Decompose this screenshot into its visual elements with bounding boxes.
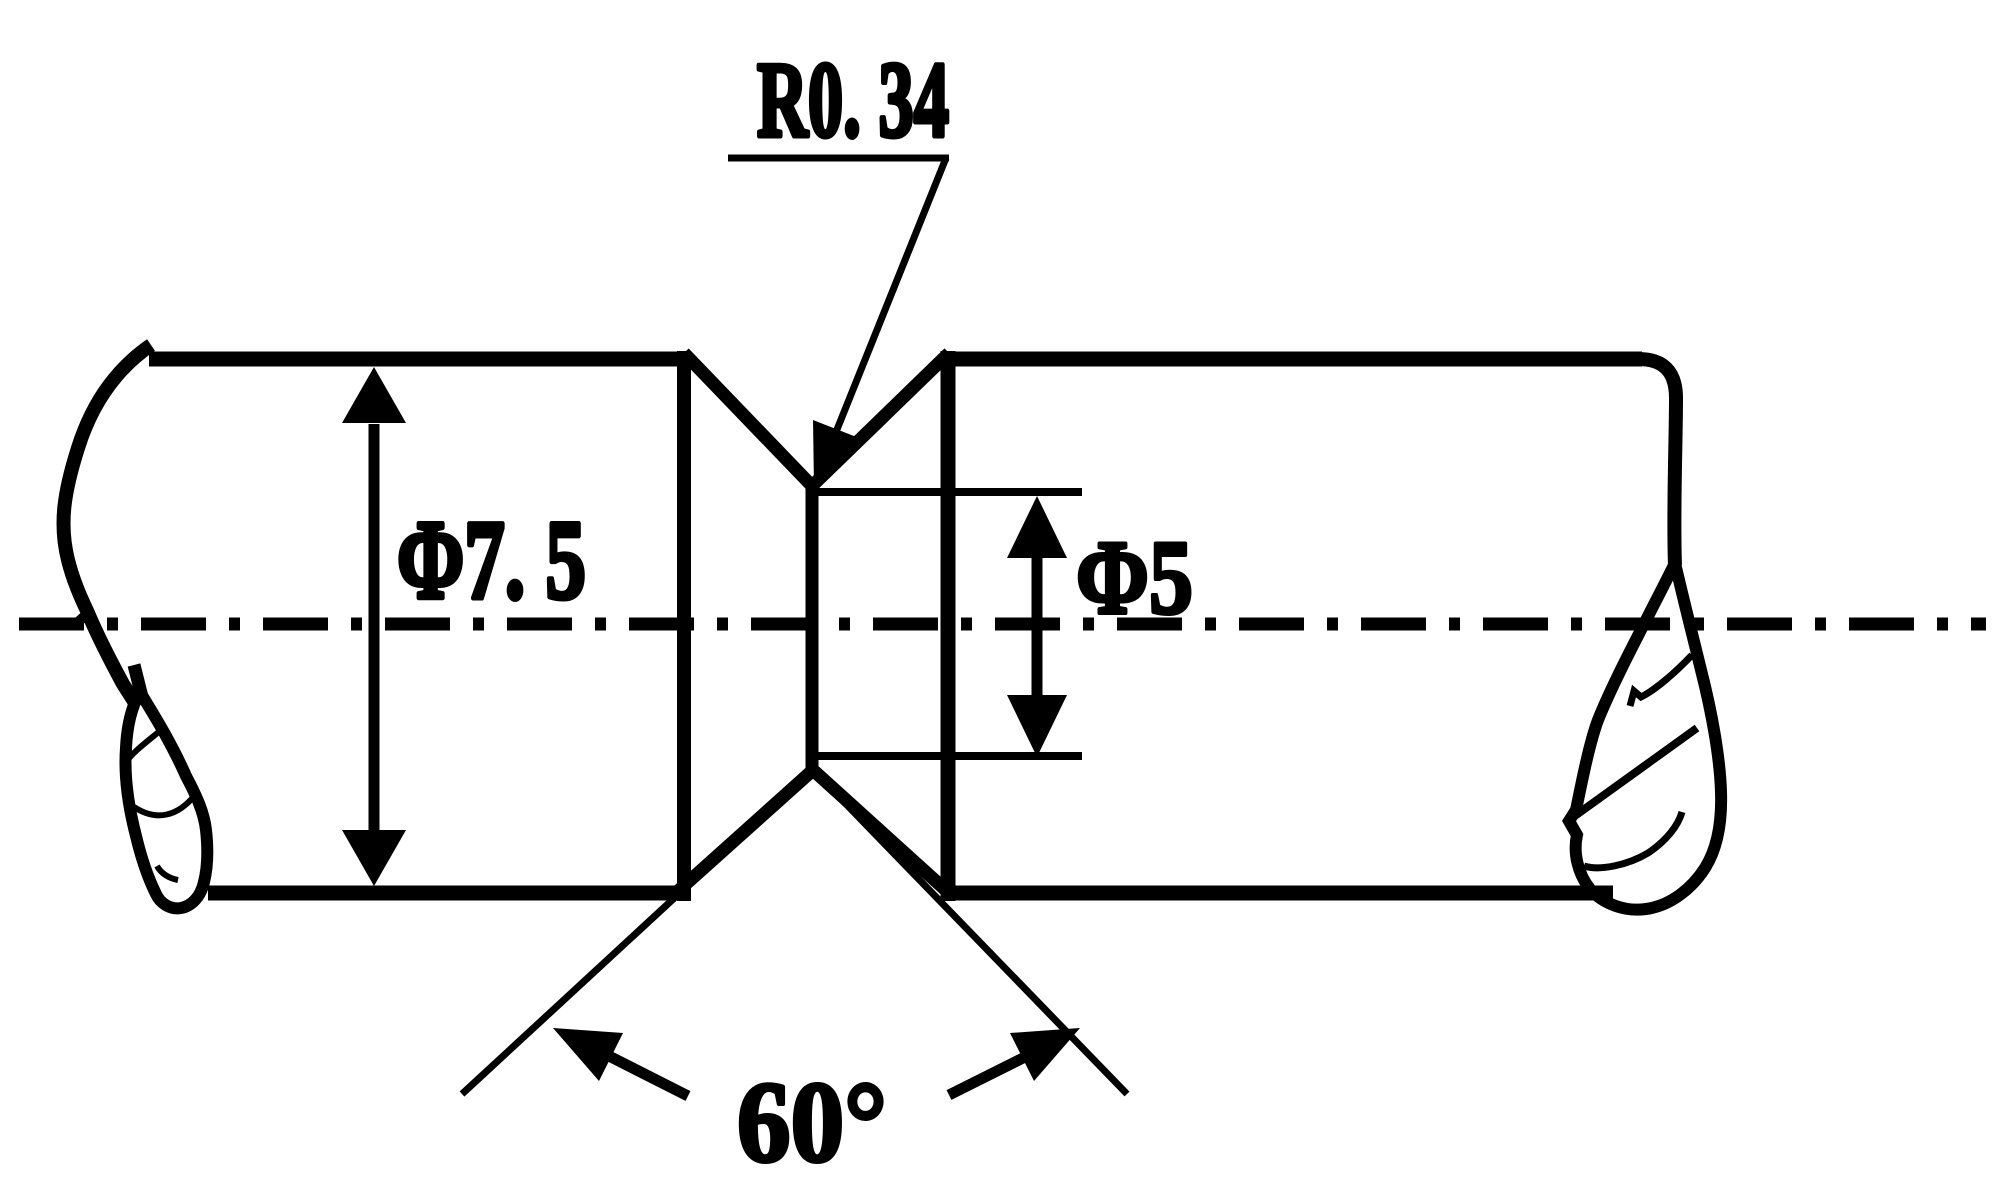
svg-text:Φ7. 5: Φ7. 5 (397, 498, 586, 623)
dim phi5 line (1032, 545, 1043, 705)
left break hatch 3 (157, 866, 178, 880)
dim phi5 arrow top (1007, 496, 1067, 558)
left shaft right face (677, 351, 691, 901)
60deg construction line left (462, 770, 813, 1094)
right break hatch 2 (1572, 728, 1697, 818)
60deg construction line right (813, 770, 1127, 1094)
dim phi5 arrow bottom (1007, 695, 1067, 757)
R0.34 leader arrowhead (813, 420, 859, 487)
svg-text:Φ5: Φ5 (1076, 519, 1193, 636)
60deg left arrowhead (553, 1028, 623, 1081)
left break teardrop (125, 692, 207, 908)
right shaft bottom edge (951, 886, 1613, 901)
R0.34 leader line (836, 158, 946, 432)
60deg right arrow tail (949, 1057, 1025, 1095)
left break hatch 2 (134, 795, 195, 815)
dim phi5 extension top (818, 488, 1082, 496)
left break line curve (63, 345, 151, 706)
groove bottom V right arm (813, 770, 950, 894)
right shaft top edge (948, 352, 1642, 367)
dim phi5 extension bottom (818, 752, 1082, 760)
right shaft rounded corner into break (1638, 359, 1676, 565)
svg-text:60°: 60° (737, 1059, 887, 1177)
right shaft left face (941, 351, 956, 901)
right break hatch 1 (1630, 655, 1692, 706)
right break hatch 3 (1584, 812, 1682, 868)
left shaft top edge (149, 352, 691, 367)
left shaft bottom edge (208, 886, 691, 901)
groove bottom V left arm (677, 770, 813, 892)
dim phi7.5 line (369, 424, 380, 830)
left break kink spur (78, 611, 90, 622)
left break hatch 1 (126, 730, 161, 762)
right break teardrop (1569, 563, 1721, 910)
dim phi7.5 arrow top (342, 367, 406, 423)
groove top V right arm (812, 353, 949, 486)
dim phi7.5 arrow bottom (342, 830, 406, 886)
groove neck vertical (806, 484, 819, 770)
60deg right arrowhead (1010, 1028, 1080, 1081)
centerline (19, 618, 1986, 631)
left break barb (134, 665, 142, 697)
groove top V left arm (684, 353, 812, 486)
R0.34 underline (728, 155, 949, 162)
svg-text:R0. 34: R0. 34 (757, 41, 949, 160)
60deg left arrow tail (607, 1055, 688, 1096)
